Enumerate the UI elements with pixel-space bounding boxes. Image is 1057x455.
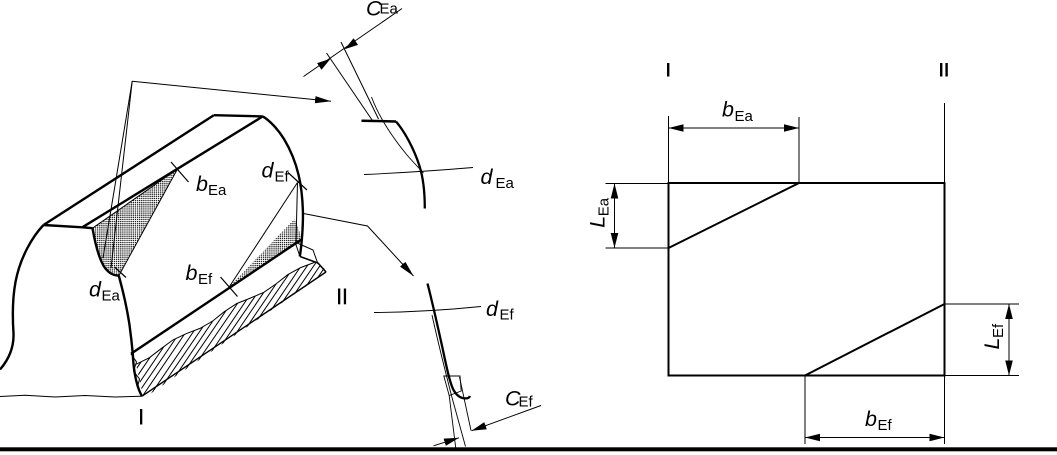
svg-text:b: b (865, 407, 877, 431)
svg-text:d: d (262, 159, 275, 183)
svg-text:Ea: Ea (496, 175, 515, 192)
svg-text:Ef: Ef (500, 307, 515, 324)
svg-text:Ea: Ea (102, 288, 121, 305)
svg-text:Ef: Ef (990, 323, 1007, 338)
svg-text:d: d (481, 165, 494, 189)
svg-text:b: b (196, 172, 208, 196)
svg-text:Ef: Ef (878, 417, 893, 434)
svg-text:d: d (486, 297, 499, 321)
svg-text:Ea: Ea (596, 197, 613, 216)
svg-text:Ea: Ea (380, 1, 399, 18)
svg-text:Ef: Ef (275, 169, 290, 186)
svg-text:b: b (186, 261, 198, 285)
svg-text:d: d (89, 278, 102, 302)
svg-text:Ef: Ef (519, 394, 534, 411)
svg-text:L: L (980, 338, 1004, 350)
svg-text:Ea: Ea (208, 182, 227, 199)
svg-text:Ef: Ef (198, 271, 213, 288)
svg-text:Ea: Ea (735, 108, 754, 125)
svg-text:b: b (722, 98, 734, 122)
svg-text:L: L (586, 216, 610, 228)
